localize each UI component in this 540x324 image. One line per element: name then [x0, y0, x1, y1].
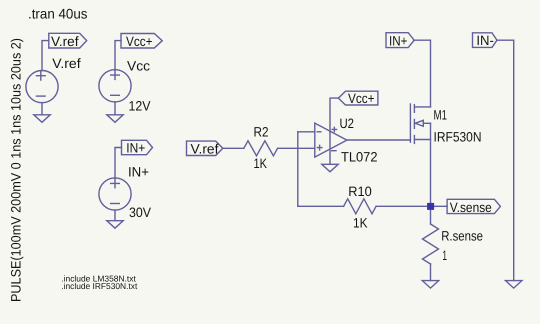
ground under IN- wire	[506, 281, 522, 289]
Vcc minus mark	[111, 94, 120, 96]
flag Vcc+ (op-amp, points left)	[338, 91, 378, 105]
wire R.sense to ground	[430, 264, 432, 281]
svg-text:IN+: IN+	[126, 141, 145, 156]
wire Vcc+ flag through op-amp to ground	[330, 98, 338, 164]
svg-text:1K: 1K	[353, 216, 368, 231]
M1 drain lead	[414, 106, 430, 108]
svg-text:R2: R2	[254, 124, 269, 139]
svg-text:M1: M1	[434, 107, 448, 122]
wire IN+ flag to IN+ source	[115, 148, 122, 179]
svg-text:V.ref: V.ref	[191, 141, 219, 156]
svg-text:IN+: IN+	[128, 164, 149, 179]
flag IN- (top right)	[473, 33, 498, 48]
wire M1 source to node V.sense	[430, 123, 432, 206]
resistor R10 body	[344, 199, 377, 214]
ground under IN+	[107, 221, 123, 229]
svg-text:R.sense: R.sense	[441, 229, 483, 244]
wire V.ref flag to R2	[223, 147, 244, 149]
wire V.ref flag to source	[42, 41, 49, 71]
svg-text:1: 1	[442, 248, 447, 263]
svg-text:30V: 30V	[129, 205, 151, 220]
ground under Vcc	[107, 115, 123, 123]
junction dot node V.sense	[427, 203, 434, 210]
op-amp U2 triangle	[315, 123, 347, 157]
op-amp minus input mark	[317, 131, 321, 133]
wire feedback vertical	[297, 132, 299, 207]
wire node to V.sense flag	[431, 205, 448, 207]
V.ref plus mark	[37, 71, 46, 80]
svg-text:.include IRF530N.txt: .include IRF530N.txt	[61, 281, 138, 291]
wire R2 to op-amp plus input	[278, 147, 315, 149]
voltage source V2 Vcc circle	[99, 70, 131, 102]
wire Vcc source to ground	[114, 102, 116, 115]
svg-text:V.sense: V.sense	[450, 200, 492, 215]
svg-text:1K: 1K	[254, 156, 268, 171]
wire Vcc+ flag to Vcc source	[115, 41, 121, 70]
svg-text:PULSE(100mV 200mV 0 1ns 1ns 10: PULSE(100mV 200mV 0 1ns 1ns 10us 20us 2)	[9, 38, 24, 302]
M1 channel drain segment	[413, 105, 415, 113]
op-amp V+ power mark	[332, 127, 336, 131]
resistor R.sense body	[423, 224, 439, 264]
svg-text:IN+: IN+	[389, 33, 407, 48]
svg-text:Vcc+: Vcc+	[348, 91, 375, 106]
svg-text:R10: R10	[348, 184, 372, 199]
IN+ minus mark	[111, 203, 120, 205]
svg-text:IN-: IN-	[476, 33, 494, 48]
wire IN+ flag to M1 drain	[414, 40, 431, 107]
flag V.ref (left, at R2)	[187, 141, 223, 155]
svg-text:Vcc: Vcc	[127, 59, 150, 74]
svg-text:V.ref: V.ref	[52, 56, 81, 71]
voltage source V3 IN+ circle	[99, 178, 131, 210]
V.ref minus mark	[37, 95, 46, 97]
IN+ plus mark	[111, 179, 120, 188]
flag IN+ (top right)	[386, 33, 414, 48]
wire node to R.sense	[430, 206, 432, 224]
svg-text:12V: 12V	[129, 99, 151, 114]
flag V.ref (top)	[49, 33, 87, 48]
wire R10 to node V.sense	[376, 205, 430, 207]
op-amp V- power mark	[332, 150, 336, 152]
ground under op-amp	[322, 164, 338, 172]
svg-text:IRF530N: IRF530N	[434, 129, 482, 144]
op-amp plus input mark	[317, 145, 322, 150]
svg-text:U2: U2	[340, 116, 355, 131]
M1 body arrow	[415, 120, 423, 126]
flag IN+ (source)	[122, 140, 153, 154]
wire op-amp output to M1 gate	[347, 139, 411, 141]
svg-text:TL072: TL072	[341, 150, 378, 165]
voltage source V1 V.ref circle	[26, 71, 58, 103]
svg-text:V.ref: V.ref	[51, 34, 79, 49]
svg-text:.tran 40us: .tran 40us	[28, 5, 88, 21]
M1 channel body segment	[413, 119, 415, 128]
flag V.sense	[447, 199, 500, 213]
flag Vcc+ (top)	[121, 34, 162, 49]
M1 channel source segment	[413, 136, 415, 144]
M1 source lead	[414, 139, 430, 141]
wire V.ref source to ground	[41, 103, 43, 115]
transistor M1 gate plate	[409, 104, 411, 142]
ground under R.sense	[422, 281, 438, 289]
M1 body tie line	[423, 122, 430, 124]
Vcc plus mark	[111, 71, 120, 80]
wire IN- flag to ground	[497, 40, 514, 280]
ground under V.ref	[34, 115, 50, 123]
wire feedback to op-amp minus input	[298, 131, 315, 133]
wire feedback to R10	[298, 205, 344, 207]
resistor R2 body	[244, 141, 278, 156]
svg-text:Vcc+: Vcc+	[126, 34, 153, 49]
wire IN+ source to ground	[114, 210, 116, 221]
